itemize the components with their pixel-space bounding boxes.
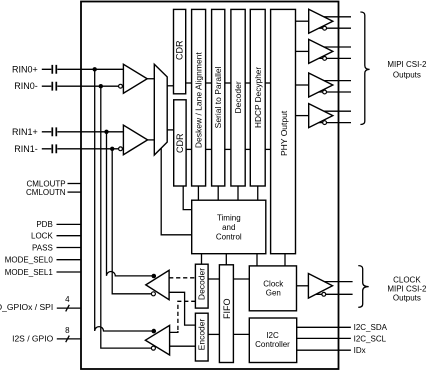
upper GPIO buffer xyxy=(146,270,169,299)
wire output buffer 3 true/complement lines xyxy=(316,81,351,92)
wire I2C_SDA xyxy=(297,326,351,328)
wire Deskew to Serial row1 xyxy=(206,82,212,84)
wire I2S/GPIO pin with bus slash xyxy=(57,336,81,343)
svg-text:RIN1-: RIN1- xyxy=(14,144,38,154)
svg-text:D_GPIOx / SPI: D_GPIOx / SPI xyxy=(0,302,53,312)
block I2C Controller xyxy=(249,318,296,363)
wire CDR2 to Timing and Control xyxy=(183,186,192,210)
wire RIN0- input line xyxy=(42,85,119,87)
wire Decoder to HDCP row1 xyxy=(245,82,250,84)
svg-text:MODE_SEL0: MODE_SEL0 xyxy=(5,256,54,265)
wire HDCP to PHY row2 xyxy=(265,148,270,150)
block CDR2 xyxy=(174,100,186,186)
wire Timing to FIFO xyxy=(225,254,227,265)
wire PHY to output buffer 4 xyxy=(296,115,309,117)
wire RIN1+ input line xyxy=(42,131,124,133)
svg-text:I2S / GPIO: I2S / GPIO xyxy=(12,334,53,344)
node RIN0- junction xyxy=(99,84,103,88)
svg-text:Timing: Timing xyxy=(217,214,241,223)
svg-text:Controller: Controller xyxy=(255,340,290,349)
svg-text:MIPI CSI-2: MIPI CSI-2 xyxy=(387,60,427,69)
wire Decoder box dashed to lower GPIO buffer xyxy=(178,301,196,331)
block PHY Output xyxy=(271,9,296,253)
svg-text:Clock: Clock xyxy=(263,279,284,288)
wire D_GPIOx/SPI pin with bus slash xyxy=(57,305,81,312)
wire Serial to Timing xyxy=(217,186,219,200)
mux xyxy=(154,64,167,155)
svg-text:RIN1+: RIN1+ xyxy=(12,127,38,137)
bubble output buffer 2 xyxy=(323,57,327,61)
bubble lower GPIO buffer xyxy=(151,346,155,350)
wire amp2 output to mux xyxy=(148,139,155,141)
wire output buffer 4 true/complement lines xyxy=(316,111,351,122)
clock output buffer xyxy=(308,274,332,299)
wire I2C_SCL xyxy=(297,337,351,339)
wire HDCP to Timing xyxy=(257,186,259,200)
bubble clock buffer xyxy=(322,292,326,296)
svg-text:PDB: PDB xyxy=(36,220,52,229)
capacitor on RIN0- xyxy=(52,82,56,91)
svg-text:I2C: I2C xyxy=(266,331,279,340)
brace CLOCK MIPI CSI-2 outputs xyxy=(358,266,368,308)
wire mux bottom to Timing and Control xyxy=(161,148,192,235)
wire RIN1- vertical to upper GPIO buffer bubble xyxy=(112,149,151,294)
node RIN1- junction xyxy=(110,147,114,151)
wire FIFO to I2C Controller xyxy=(233,333,249,335)
block HDCP Decypher xyxy=(250,9,265,186)
svg-text:CLOCK: CLOCK xyxy=(393,275,421,284)
wire output buffer 1 true/complement lines xyxy=(316,17,351,28)
wire mux to CDR2 xyxy=(167,129,174,131)
svg-text:IDx: IDx xyxy=(354,346,366,355)
wire RIN1- input line xyxy=(42,148,119,150)
node lower GPIO buffer junction dot xyxy=(152,329,157,334)
wire mux to CDR1 xyxy=(167,85,173,87)
wire FIFO to Clock Gen xyxy=(233,278,249,280)
wire stub lower GPIO buffer upper port xyxy=(170,331,178,332)
bubble amp1 inverting input xyxy=(119,84,123,88)
svg-text:I2C_SCL: I2C_SCL xyxy=(354,334,387,343)
wire CDR2 to Deskew xyxy=(186,148,192,150)
wire MODE_SEL1 pin xyxy=(57,271,82,273)
capacitor on RIN0+ xyxy=(52,65,56,74)
svg-text:4: 4 xyxy=(65,295,70,304)
wire output buffer 2 true/complement lines xyxy=(316,47,351,58)
wire Decoder to Timing xyxy=(237,186,239,200)
block Serial to Parallel xyxy=(212,9,225,186)
wire MODE_SEL0 pin xyxy=(57,259,82,261)
block Decoder (pipeline) xyxy=(231,9,245,186)
wire upper GPIO buffer dashed to Decoder box xyxy=(169,277,195,279)
svg-text:PHY Output: PHY Output xyxy=(279,110,289,156)
svg-text:CDR: CDR xyxy=(175,133,185,153)
op-amp input buffer 1 xyxy=(123,64,147,93)
wire Deskew to Timing xyxy=(197,186,199,200)
svg-text:Gen: Gen xyxy=(266,289,281,298)
wire IDx xyxy=(297,349,351,351)
output buffer U1 xyxy=(309,9,333,33)
wire Timing to Clock Gen xyxy=(256,254,258,266)
lower GPIO buffer xyxy=(145,325,169,355)
block Timing and Control xyxy=(192,200,266,254)
wire CMLOUTP pin xyxy=(68,183,82,185)
svg-text:Outputs: Outputs xyxy=(393,70,421,79)
bubble amp2 inverting input xyxy=(119,147,123,151)
bubble output buffer 1 xyxy=(323,26,327,30)
wire RIN1+ vertical to upper GPIO buffer with hop xyxy=(107,132,153,276)
wire PDB pin xyxy=(57,223,82,225)
wire Serial to Decoder row1 xyxy=(225,82,231,84)
svg-text:Deskew / Lane Alignment: Deskew / Lane Alignment xyxy=(194,52,204,149)
svg-text:LOCK: LOCK xyxy=(31,232,53,241)
chip outline xyxy=(81,2,339,370)
wire PHY Output to Clock Gen xyxy=(284,254,286,266)
block Deskew / Lane Alignment xyxy=(192,9,206,186)
svg-text:Serial to Parallel: Serial to Parallel xyxy=(213,66,223,128)
svg-text:CDR: CDR xyxy=(175,40,185,60)
block Encoder xyxy=(195,313,208,361)
bubble output buffer 3 xyxy=(323,90,327,94)
capacitor on RIN1- xyxy=(52,144,56,153)
svg-text:8: 8 xyxy=(65,326,70,335)
svg-text:RIN0-: RIN0- xyxy=(14,81,38,91)
block Decoder (GPIO) xyxy=(195,264,208,308)
capacitor on RIN1+ xyxy=(52,127,56,136)
wire Serial to Decoder row2 xyxy=(225,148,231,150)
wire Encoder to FIFO xyxy=(208,333,219,335)
wire upper GPIO buffer to Encoder xyxy=(169,292,195,325)
output buffer U4 xyxy=(309,104,333,128)
output buffer U3 xyxy=(309,73,333,97)
block CDR1 xyxy=(174,9,186,93)
wire PHY to output buffer 2 xyxy=(296,50,309,52)
op-amp input buffer 2 xyxy=(123,125,147,155)
wire LOCK pin xyxy=(57,235,82,237)
bubble output buffer 4 xyxy=(323,121,327,125)
node RIN1+ junction xyxy=(104,130,108,134)
svg-text:FIFO: FIFO xyxy=(222,298,232,319)
wire Decoder box to FIFO xyxy=(208,278,219,280)
brace MIPI CSI-2 outputs xyxy=(360,12,369,125)
wire RIN0- vertical to lower GPIO buffer bubble xyxy=(101,86,152,348)
output buffer U2 xyxy=(309,39,333,63)
wire PHY to output buffer 3 xyxy=(296,84,309,86)
wire clock buffer true/complement lines xyxy=(315,282,353,295)
wire lower GPIO buffer to Encoder xyxy=(170,345,196,347)
svg-text:RIN0+: RIN0+ xyxy=(12,64,38,74)
wire CDR1 to Deskew xyxy=(186,82,192,84)
svg-text:Decoder: Decoder xyxy=(197,268,207,300)
wire CMLOUTN pin xyxy=(68,191,82,193)
wire amp1 output to mux xyxy=(147,78,154,80)
svg-text:Encoder: Encoder xyxy=(197,319,207,351)
node RIN0+ junction xyxy=(93,67,97,71)
svg-text:I2C_SDA: I2C_SDA xyxy=(354,323,388,332)
svg-text:and: and xyxy=(222,223,235,232)
wire RIN0+ input line xyxy=(42,68,124,70)
wire RIN0+ vertical to lower GPIO buffer with hop xyxy=(95,69,152,331)
svg-text:MIPI CSI-2: MIPI CSI-2 xyxy=(387,284,427,293)
block Clock Gen xyxy=(249,266,296,311)
svg-text:Control: Control xyxy=(216,233,242,242)
svg-text:Decoder: Decoder xyxy=(233,81,243,113)
wire Decoder to HDCP row2 xyxy=(245,148,250,150)
wire PHY to output buffer 1 xyxy=(296,20,309,22)
node upper GPIO buffer junction dot xyxy=(152,274,157,279)
bubble upper GPIO buffer xyxy=(151,292,155,296)
wire Deskew to Serial row2 xyxy=(206,148,212,150)
wire Timing to Decoder box xyxy=(201,254,203,265)
svg-text:HDCP Decypher: HDCP Decypher xyxy=(253,67,263,128)
block FIFO xyxy=(219,265,233,363)
svg-text:Outputs: Outputs xyxy=(393,293,421,302)
svg-text:PASS: PASS xyxy=(32,243,53,252)
wire HDCP to PHY row1 xyxy=(265,82,270,84)
wire PASS pin xyxy=(57,247,82,249)
wire Clock Gen to clock buffer xyxy=(297,285,309,287)
svg-text:CMLOUTN: CMLOUTN xyxy=(26,188,66,197)
svg-text:MODE_SEL1: MODE_SEL1 xyxy=(5,268,54,277)
